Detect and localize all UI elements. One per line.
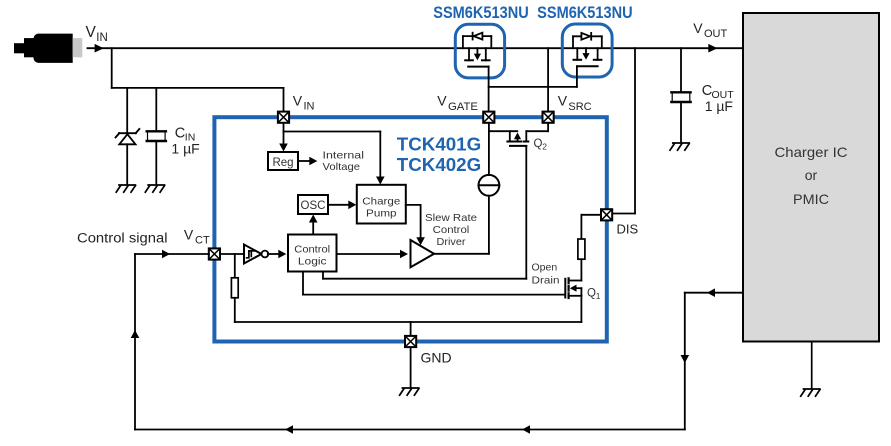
wire VSRC tap (547, 48, 549, 112)
svg-text:Internal: Internal (323, 150, 365, 162)
charge pump block (357, 185, 406, 224)
svg-text:1 µF: 1 µF (171, 141, 199, 157)
wire resistor to Q1 drain (580, 259, 582, 280)
arrow into charge pump top (376, 177, 385, 185)
wire driver output to VGATE (434, 196, 489, 254)
transistor Q1 (565, 278, 581, 298)
svg-text:CT: CT (195, 235, 210, 247)
svg-text:Control: Control (294, 243, 330, 255)
wire VIN main rail (88, 47, 744, 49)
svg-text:V: V (184, 226, 194, 242)
arrow into Reg (279, 144, 288, 152)
wire VIN pin to Reg (283, 123, 285, 148)
wire internal ground rail (235, 296, 582, 336)
label VCT pin (184, 226, 210, 246)
arrow VOUT into charger (708, 44, 717, 53)
label CIN value (171, 126, 199, 157)
control logic block (288, 235, 337, 272)
svg-text:V: V (293, 93, 303, 109)
ground (charger IC) (801, 342, 820, 397)
svg-text:2: 2 (542, 142, 547, 152)
wire GND pin to ground (410, 348, 412, 388)
label VSRC pin (558, 93, 592, 114)
oscillator block OSC (298, 195, 328, 214)
svg-text:Q: Q (534, 138, 543, 150)
resistor R2 (open drain) (578, 239, 585, 259)
arrow feedback bottom right (522, 425, 530, 434)
wire control logic to driver (337, 253, 404, 255)
arrow into driver left (400, 250, 408, 259)
label Q1 (587, 288, 601, 302)
svg-text:Slew Rate: Slew Rate (425, 213, 477, 224)
wire gate Q4 tie (489, 66, 577, 87)
arrow feedback bottom left (285, 425, 293, 434)
op-amp driver triangle (411, 240, 435, 267)
svg-text:Reg: Reg (272, 157, 293, 169)
ground (GND pin) (400, 388, 419, 395)
svg-text:DIS: DIS (617, 222, 639, 237)
label Internal Voltage (323, 150, 365, 174)
label Open Drain (532, 261, 560, 286)
arrow feedback from charger (707, 288, 715, 297)
wire Q1 gate to control logic (303, 272, 565, 295)
wire VIN pin to charge pump (284, 132, 381, 181)
IC U1 TCK401G/TCK402G boundary (214, 117, 606, 341)
arrow VIN input (95, 44, 104, 53)
USB plug connector (14, 34, 82, 63)
svg-text:OSC: OSC (301, 200, 326, 212)
svg-text:1 µF: 1 µF (705, 98, 733, 114)
svg-text:Open: Open (532, 261, 558, 273)
svg-text:Charge: Charge (362, 196, 400, 208)
wire gate Q3 to VGATE pin (488, 67, 490, 112)
wire control logic to OSC (312, 219, 314, 235)
svg-text:SRC: SRC (568, 101, 591, 113)
arrow feedback up (131, 330, 140, 338)
label Slew Rate Control Driver (425, 213, 477, 248)
pin VIN (278, 112, 289, 123)
current source I1 (479, 175, 500, 196)
zener diode D1 (116, 129, 140, 144)
ground (CIN) (145, 185, 164, 192)
label VOUT (693, 20, 727, 40)
capacitor COUT (671, 92, 690, 102)
svg-text:OUT: OUT (704, 28, 728, 40)
wire CIN branch (155, 88, 157, 131)
svg-text:V: V (86, 24, 97, 41)
svg-text:TCK402G: TCK402G (397, 154, 481, 175)
label VIN source (86, 24, 108, 44)
node VIN input branch (112, 48, 284, 112)
wire Q2 gate to control logic (323, 146, 526, 279)
svg-text:Q: Q (587, 288, 596, 300)
arrow into VCT pin (162, 250, 170, 259)
svg-text:PMIC: PMIC (793, 191, 829, 207)
ground (zener) (116, 185, 135, 192)
arrow into control logic (278, 250, 286, 259)
arrow into charge pump left (348, 201, 356, 210)
svg-text:Control: Control (433, 225, 470, 236)
pin VSRC (543, 112, 554, 123)
label VIN pin (293, 93, 315, 113)
schmitt inverter U2 (220, 245, 281, 264)
svg-text:C: C (175, 126, 185, 142)
svg-text:Drain: Drain (532, 274, 560, 286)
arrow feedback down (681, 355, 690, 363)
transistor Q3 (left SSM6K513NU) (463, 33, 491, 67)
resistor R1 (VCT pulldown) (231, 254, 238, 322)
svg-text:Driver: Driver (437, 237, 467, 248)
wire COUT branch (680, 48, 682, 92)
pin VGATE (483, 112, 494, 123)
svg-text:Pump: Pump (366, 208, 397, 220)
arrow internal voltage (309, 157, 317, 166)
svg-text:or: or (805, 167, 818, 183)
wire DIS to VOUT rail (612, 48, 635, 213)
label VGATE pin (437, 93, 478, 114)
label Q2 (534, 138, 548, 152)
wire OSC to charge pump (328, 204, 351, 206)
wire CIN to ground (155, 142, 157, 185)
wire Reg to internal voltage (298, 160, 312, 162)
svg-text:GND: GND (421, 350, 452, 366)
capacitor CIN (147, 131, 166, 141)
transistor module Q4 outline (562, 24, 612, 77)
svg-text:GATE: GATE (448, 101, 478, 113)
wire zener branch (126, 88, 128, 133)
svg-text:V: V (558, 93, 568, 109)
svg-text:IN: IN (96, 32, 108, 44)
svg-text:Logic: Logic (298, 256, 327, 268)
svg-text:SSM6K513NU: SSM6K513NU (537, 4, 633, 22)
charger IC block (743, 13, 879, 342)
svg-text:Voltage: Voltage (323, 161, 361, 173)
svg-text:IN: IN (304, 101, 315, 113)
pin VCT (209, 248, 220, 259)
label COUT value (702, 83, 734, 114)
svg-text:1: 1 (596, 291, 601, 301)
arrow into OSC bottom (309, 215, 318, 223)
transistor Q4 (right SSM6K513NU) (573, 33, 602, 66)
ground (COUT) (670, 143, 689, 150)
transistor Q2 (489, 123, 548, 146)
svg-text:V: V (437, 93, 447, 109)
wire charge pump to driver (406, 205, 421, 240)
svg-text:SSM6K513NU: SSM6K513NU (433, 4, 529, 22)
svg-text:V: V (693, 20, 703, 36)
wire COUT to ground (680, 103, 682, 143)
svg-text:Control signal: Control signal (77, 230, 168, 245)
pin GND (405, 336, 416, 347)
regulator block Reg (268, 152, 298, 170)
arrow into driver top (416, 237, 425, 245)
wire zener to ground (126, 144, 128, 184)
wire DIS pin to resistor (581, 215, 601, 239)
pin DIS (601, 209, 612, 220)
transistor module Q3 outline (455, 24, 504, 78)
wire current source to VGATE pin (488, 123, 490, 175)
svg-text:Charger IC: Charger IC (775, 144, 848, 160)
wire control feedback loop (135, 254, 743, 430)
svg-text:TCK401G: TCK401G (397, 133, 481, 154)
